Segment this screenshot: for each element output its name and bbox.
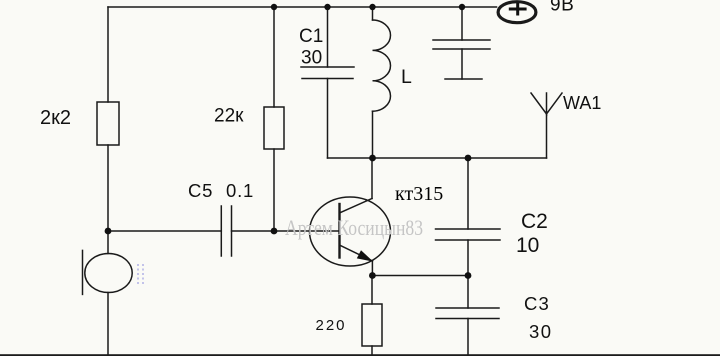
transistor Q1 circle [310,197,391,266]
wire microphone top lead [107,231,109,254]
wire left vertical lower [107,145,109,231]
microphone BM1 circle [85,254,132,293]
wire decoupling cap bottom lead [461,49,463,79]
wire C1 bottom lead [327,79,329,159]
node dot top rail C1 [324,4,330,10]
capacitor C5 left plate [220,206,222,256]
microphone BM1 side bar [82,250,84,294]
svg-text:2к2: 2к2 [40,107,71,129]
svg-text:L: L [401,66,412,88]
resistor R 2к2 body [97,102,119,145]
node dot top rail L [369,4,375,10]
capacitor C1 bottom plate [302,78,353,80]
wire L bottom stub [372,111,374,158]
wire L top stub [372,7,374,20]
resistor R 22к body [264,107,284,149]
wire C3 top lead [467,276,469,309]
svg-text:220: 220 [316,317,347,334]
node dot mid rail C2 [465,155,472,162]
svg-text:кт315: кт315 [395,183,443,205]
wire 220 bottom lead [371,346,373,356]
svg-text:30: 30 [529,321,553,342]
bottom border line [0,354,720,356]
svg-text:WA1: WA1 [563,93,601,113]
wire 22k bottom [273,149,275,231]
capacitor C4 top plate [433,39,490,41]
svg-text:C1: C1 [299,26,323,47]
transistor Q1 emitter diagonal [341,246,373,262]
inductor L coil [373,20,391,111]
svg-text:10: 10 [516,234,539,257]
svg-text:C3: C3 [524,293,550,314]
transistor Q1 emitter arrow [357,250,373,261]
capacitor C3 top plate [436,307,499,309]
wire mid rail [328,157,547,159]
capacitor C2 bottom plate [436,239,501,241]
wire C3 bottom lead [467,319,469,356]
node dot emitter rail C3 [465,272,472,279]
wire base right segment [232,230,340,232]
capacitor C5 right plate [231,206,233,256]
wire collector vertical [371,158,373,199]
battery plus sign [509,3,527,16]
antenna WA1 prongs [531,93,562,114]
wire emitter rail [372,275,468,277]
svg-text:22к: 22к [214,106,244,127]
svg-text:9В: 9В [550,0,574,16]
wire left vertical upper [107,7,109,102]
transistor Q1 base bar [338,204,340,258]
node dot mid rail L [369,155,376,162]
wire 220 top lead [371,276,373,305]
transistor Q1 collector diagonal [341,199,373,213]
wire microphone bottom lead [107,293,109,356]
node dot top rail C4 [459,4,465,10]
resistor R 220 body [362,304,382,346]
capacitor C3 bottom plate [436,318,499,320]
wire 22k top [273,7,275,107]
node dot base mic [105,228,112,235]
capacitor C4 bottom plate [433,48,490,50]
watermark blue dots [137,264,144,284]
wire C2 bottom lead [467,240,469,276]
wire emitter vertical [371,261,373,276]
node dot emitter [369,272,376,279]
node dot base 22k [271,228,278,235]
node dot top rail 22k [271,4,277,10]
capacitor C2 top plate [436,228,501,230]
svg-text:0.1: 0.1 [226,180,254,201]
battery plus terminal circle 9В [498,2,536,23]
wire base left segment [108,230,221,232]
svg-text:30: 30 [301,48,322,69]
wire C2 top lead [467,158,469,229]
capacitor C1 top plate [301,66,354,68]
wire top rail [108,6,497,8]
wire antenna vertical [546,114,548,158]
svg-text:Артем Косицын83: Артем Косицын83 [285,215,423,240]
wire C1 top lead [327,7,329,67]
wire decoupling cap top lead [461,7,463,40]
svg-text:C5: C5 [188,180,213,201]
ground bar [445,78,482,80]
svg-text:C2: C2 [521,210,548,233]
